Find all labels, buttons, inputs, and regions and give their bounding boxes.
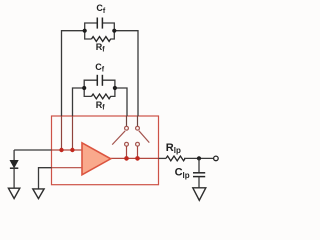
ground (Clp) — [193, 188, 206, 201]
switch S1 feed wire (inside box) — [126, 116, 128, 126]
feedback network 1 : right lead wire — [114, 31, 138, 116]
feedback network 2 : left lead wire — [73, 88, 85, 116]
output terminal (open circle) — [214, 156, 219, 161]
node: switch S2 output dot — [135, 156, 140, 161]
resistor Rf (second feedback), zigzag — [92, 94, 111, 99]
ground (photodiode) — [8, 188, 19, 198]
wire: inverting input line inside box — [52, 149, 83, 151]
feedback network 2 : loop frame — [84, 80, 115, 96]
node: network 2 right junction — [113, 86, 117, 90]
capacitor Cf (top feedback), plates — [97, 18, 102, 29]
wire: output line inside box — [111, 157, 159, 159]
node: network 1 right junction — [112, 29, 116, 33]
wire: feedback drop 2 inside box — [72, 116, 74, 150]
node: summing junction dot 1 — [59, 148, 63, 152]
switch S1 — [112, 126, 128, 158]
node: summing junction dot 2 — [70, 148, 74, 152]
capacitor Cf (second feedback), plates — [97, 75, 102, 86]
node: low-pass output node — [197, 156, 201, 160]
capacitor Clp — [193, 158, 205, 187]
wire: Rlp to output terminal — [184, 157, 213, 159]
wire: non-inverting input line inside box — [52, 167, 83, 169]
feedback network 1 : loop frame — [85, 23, 115, 39]
op-amp U1 — [82, 143, 111, 175]
resistor Rlp zigzag — [166, 156, 185, 161]
wire: inverting input line (photodiode to box) — [14, 149, 51, 151]
switch S2 feed wire (inside box) — [137, 116, 139, 126]
IC package box U1 — [52, 116, 159, 185]
wire: output lead outside box — [159, 157, 167, 159]
wire: non-inverting input line outside box — [39, 168, 52, 189]
feedback network 1 : left lead wire — [62, 31, 85, 116]
node: network 2 left junction — [82, 86, 86, 90]
node: switch S1 output dot — [124, 156, 129, 161]
node: network 1 left junction — [83, 29, 87, 33]
ground (non-inverting input) — [33, 189, 44, 199]
resistor Rf (top feedback), zigzag — [92, 37, 111, 42]
switch S2 — [136, 126, 150, 158]
feedback network 2 : right lead wire — [115, 88, 127, 116]
wire: feedback drop 1 inside box — [61, 116, 63, 150]
photodiode D1 — [10, 150, 18, 188]
